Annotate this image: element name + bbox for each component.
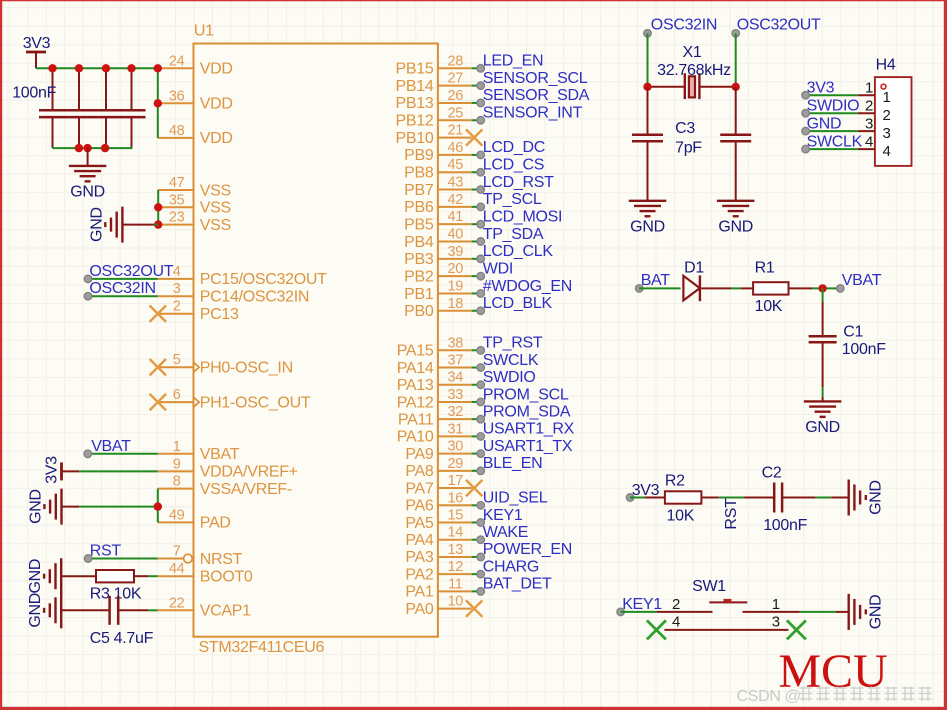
svg-text:PA2: PA2	[405, 566, 434, 583]
svg-text:PA13: PA13	[397, 377, 434, 394]
svg-text:PB6: PB6	[404, 199, 434, 216]
svg-text:GND: GND	[868, 480, 885, 515]
svg-text:GND: GND	[28, 489, 45, 524]
svg-text:R3 10K: R3 10K	[90, 586, 142, 603]
svg-text:40: 40	[448, 227, 464, 243]
svg-text:1: 1	[173, 439, 181, 455]
svg-text:100nF: 100nF	[763, 517, 807, 534]
svg-text:VCAP1: VCAP1	[200, 603, 251, 620]
svg-text:1: 1	[865, 80, 873, 97]
svg-text:VSSA/VREF-: VSSA/VREF-	[200, 481, 292, 498]
svg-text:LCD_DC: LCD_DC	[483, 139, 545, 156]
svg-text:48: 48	[169, 123, 185, 139]
svg-text:UID_SEL: UID_SEL	[483, 490, 548, 507]
svg-text:LED_EN: LED_EN	[483, 53, 543, 70]
svg-text:SW1: SW1	[692, 578, 726, 595]
svg-text:3V3: 3V3	[23, 35, 51, 52]
svg-text:OSC32OUT: OSC32OUT	[89, 263, 173, 280]
svg-text:22: 22	[169, 595, 185, 611]
svg-text:#WDOG_EN: #WDOG_EN	[483, 278, 572, 295]
svg-text:VSS: VSS	[200, 182, 231, 199]
svg-text:42: 42	[448, 192, 464, 208]
svg-text:VDDA/VREF+: VDDA/VREF+	[200, 464, 298, 481]
svg-text:15: 15	[448, 508, 464, 524]
svg-text:49: 49	[169, 507, 185, 523]
svg-text:9: 9	[173, 456, 181, 472]
svg-text:C5 4.7uF: C5 4.7uF	[90, 630, 154, 647]
svg-text:2: 2	[672, 596, 680, 613]
svg-text:34: 34	[448, 370, 464, 386]
svg-text:44: 44	[169, 561, 185, 577]
svg-text:38: 38	[448, 335, 464, 351]
svg-text:PROM_SDA: PROM_SDA	[483, 403, 571, 420]
svg-text:7: 7	[173, 544, 181, 560]
svg-text:PA12: PA12	[397, 394, 434, 411]
svg-text:PC13: PC13	[200, 306, 239, 323]
svg-text:17: 17	[448, 473, 464, 489]
svg-text:OSC32OUT: OSC32OUT	[737, 17, 821, 34]
svg-text:11: 11	[448, 576, 463, 592]
svg-text:BLE_EN: BLE_EN	[483, 455, 543, 472]
svg-text:PB3: PB3	[404, 251, 434, 268]
svg-text:CHARG: CHARG	[483, 558, 539, 575]
svg-text:26: 26	[448, 88, 464, 104]
svg-text:28: 28	[448, 53, 464, 69]
svg-text:3: 3	[173, 281, 181, 297]
svg-text:3: 3	[772, 613, 780, 630]
svg-text:35: 35	[169, 192, 185, 208]
svg-text:PA10: PA10	[397, 429, 434, 446]
svg-text:PA9: PA9	[405, 446, 434, 463]
svg-text:WDI: WDI	[483, 260, 513, 277]
svg-text:41: 41	[448, 209, 464, 225]
svg-text:RST: RST	[90, 543, 122, 560]
svg-text:TP_SCL: TP_SCL	[483, 191, 542, 208]
svg-text:18: 18	[448, 296, 464, 312]
svg-text:PB5: PB5	[404, 216, 434, 233]
svg-text:46: 46	[448, 140, 464, 156]
svg-text:WAKE: WAKE	[483, 524, 528, 541]
svg-text:U1: U1	[194, 23, 214, 40]
svg-text:PA0: PA0	[405, 601, 434, 618]
svg-text:43: 43	[448, 175, 464, 191]
svg-text:2: 2	[865, 98, 873, 115]
svg-text:20: 20	[448, 261, 464, 277]
svg-text:C3: C3	[675, 120, 695, 137]
svg-text:30: 30	[448, 439, 464, 455]
svg-text:LCD_CLK: LCD_CLK	[483, 243, 554, 260]
svg-text:PB9: PB9	[404, 147, 434, 164]
svg-text:SWDIO: SWDIO	[483, 369, 536, 386]
svg-text:VBAT: VBAT	[91, 438, 131, 455]
svg-text:GND: GND	[630, 219, 665, 236]
svg-text:8: 8	[173, 474, 181, 490]
svg-text:CSDN @: CSDN @	[737, 688, 801, 705]
svg-text:2: 2	[173, 299, 181, 315]
svg-text:VSS: VSS	[200, 217, 231, 234]
svg-text:47: 47	[169, 175, 185, 191]
svg-text:BAT: BAT	[641, 272, 671, 289]
svg-text:GND: GND	[868, 595, 885, 630]
svg-text:BAT_DET: BAT_DET	[483, 576, 552, 593]
svg-text:PROM_SCL: PROM_SCL	[483, 386, 569, 403]
svg-text:24: 24	[169, 53, 185, 69]
svg-text:39: 39	[448, 244, 464, 260]
svg-text:PB12: PB12	[396, 113, 434, 130]
svg-text:PB1: PB1	[404, 286, 434, 303]
svg-text:TP_RST: TP_RST	[483, 335, 543, 352]
svg-text:LCD_RST: LCD_RST	[483, 174, 554, 191]
svg-text:D1: D1	[684, 260, 704, 277]
svg-text:GND: GND	[88, 207, 105, 242]
svg-text:36: 36	[169, 88, 185, 104]
svg-text:4: 4	[882, 143, 890, 160]
svg-text:3V3: 3V3	[44, 456, 61, 484]
svg-text:10K: 10K	[755, 298, 783, 315]
svg-text:PB8: PB8	[404, 165, 434, 182]
svg-text:10: 10	[448, 594, 464, 610]
svg-text:33: 33	[448, 387, 464, 403]
svg-text:GND: GND	[807, 115, 842, 132]
svg-text:PA5: PA5	[405, 515, 434, 532]
svg-text:PA8: PA8	[405, 463, 434, 480]
svg-text:GND: GND	[718, 219, 753, 236]
svg-text:16: 16	[448, 490, 464, 506]
svg-text:PA15: PA15	[397, 343, 434, 360]
svg-text:R1: R1	[755, 260, 775, 277]
svg-text:LCD_CS: LCD_CS	[483, 157, 544, 174]
svg-text:LCD_BLK: LCD_BLK	[483, 295, 553, 312]
svg-text:1: 1	[882, 89, 890, 106]
svg-text:6: 6	[173, 387, 181, 403]
svg-text:USART1_RX: USART1_RX	[483, 421, 575, 438]
svg-text:POWER_EN: POWER_EN	[483, 541, 572, 558]
svg-text:STM32F411CEU6: STM32F411CEU6	[199, 639, 325, 656]
svg-text:PA1: PA1	[405, 584, 434, 601]
svg-text:100nF: 100nF	[12, 85, 56, 102]
svg-text:BOOT0: BOOT0	[200, 569, 253, 586]
svg-text:VDD: VDD	[200, 61, 233, 78]
svg-text:3V3: 3V3	[632, 482, 660, 499]
svg-text:19: 19	[448, 278, 464, 294]
svg-text:OSC32IN: OSC32IN	[89, 280, 155, 297]
svg-text:PA11: PA11	[398, 411, 434, 428]
svg-text:TP_SDA: TP_SDA	[483, 226, 544, 243]
svg-text:PB4: PB4	[404, 234, 434, 251]
svg-text:4: 4	[672, 613, 680, 630]
svg-text:VSS: VSS	[200, 200, 231, 217]
svg-text:13: 13	[448, 542, 464, 558]
svg-text:PH1-OSC_OUT: PH1-OSC_OUT	[200, 394, 311, 411]
svg-text:5: 5	[173, 352, 181, 368]
svg-text:PB7: PB7	[404, 182, 434, 199]
svg-text:3V3: 3V3	[807, 80, 835, 97]
svg-text:PA6: PA6	[405, 498, 434, 515]
svg-text:SENSOR_INT: SENSOR_INT	[483, 105, 583, 122]
svg-text:RST: RST	[723, 498, 740, 530]
svg-text:4: 4	[173, 264, 181, 280]
svg-text:H4: H4	[876, 57, 896, 74]
svg-text:PB10: PB10	[396, 130, 434, 147]
svg-text:PB13: PB13	[396, 95, 434, 112]
svg-text:C1: C1	[843, 323, 863, 340]
svg-text:3: 3	[865, 115, 873, 132]
svg-text:7pF: 7pF	[675, 140, 702, 157]
svg-text:VDD: VDD	[200, 130, 233, 147]
svg-text:PC15/OSC32OUT: PC15/OSC32OUT	[200, 271, 327, 288]
svg-text:25: 25	[448, 105, 464, 121]
svg-text:PB14: PB14	[396, 78, 434, 95]
svg-text:SWCLK: SWCLK	[483, 352, 539, 369]
svg-text:23: 23	[169, 210, 185, 226]
svg-text:37: 37	[448, 353, 464, 369]
svg-text:1: 1	[772, 596, 780, 613]
svg-text:USART1_TX: USART1_TX	[483, 438, 573, 455]
svg-text:GND: GND	[805, 419, 840, 436]
svg-text:32: 32	[448, 404, 464, 420]
svg-text:12: 12	[448, 559, 464, 575]
svg-text:31: 31	[448, 421, 464, 437]
svg-text:NRST: NRST	[200, 551, 243, 568]
svg-text:SENSOR_SCL: SENSOR_SCL	[483, 70, 588, 87]
svg-text:14: 14	[448, 525, 464, 541]
svg-text:PB2: PB2	[404, 268, 434, 285]
svg-text:GND: GND	[70, 184, 105, 201]
svg-text:PA7: PA7	[405, 480, 434, 497]
svg-text:PB0: PB0	[404, 303, 434, 320]
svg-text:C2: C2	[762, 465, 782, 482]
svg-text:3: 3	[882, 125, 890, 142]
svg-text:100nF: 100nF	[842, 341, 886, 358]
svg-text:45: 45	[448, 157, 464, 173]
svg-text:KEY1: KEY1	[483, 507, 523, 524]
svg-text:10K: 10K	[667, 507, 695, 524]
svg-text:GND: GND	[27, 559, 44, 594]
svg-text:2: 2	[882, 107, 890, 124]
svg-text:PC14/OSC32IN: PC14/OSC32IN	[200, 289, 309, 306]
svg-text:4: 4	[865, 133, 873, 150]
svg-text:SWDIO: SWDIO	[807, 98, 860, 115]
svg-text:X1: X1	[683, 44, 702, 61]
svg-text:VDD: VDD	[200, 96, 233, 113]
svg-text:SENSOR_SDA: SENSOR_SDA	[483, 87, 590, 104]
svg-text:29: 29	[448, 456, 464, 472]
svg-text:PA14: PA14	[397, 360, 434, 377]
svg-text:LCD_MOSI: LCD_MOSI	[483, 208, 562, 225]
svg-text:VBAT: VBAT	[842, 272, 882, 289]
svg-text:PB15: PB15	[396, 61, 434, 78]
svg-text:PH0-OSC_IN: PH0-OSC_IN	[200, 360, 293, 377]
svg-text:32.768kHz: 32.768kHz	[657, 62, 731, 79]
svg-text:27: 27	[448, 71, 464, 87]
svg-text:GND: GND	[27, 593, 44, 628]
svg-text:21: 21	[448, 123, 464, 139]
svg-text:PA3: PA3	[405, 549, 434, 566]
svg-text:VBAT: VBAT	[200, 446, 240, 463]
svg-text:R2: R2	[665, 472, 685, 489]
svg-text:PAD: PAD	[200, 515, 231, 532]
svg-text:OSC32IN: OSC32IN	[651, 17, 717, 34]
svg-text:PA4: PA4	[405, 532, 434, 549]
svg-text:SWCLK: SWCLK	[807, 133, 863, 150]
svg-text:KEY1: KEY1	[622, 596, 662, 613]
